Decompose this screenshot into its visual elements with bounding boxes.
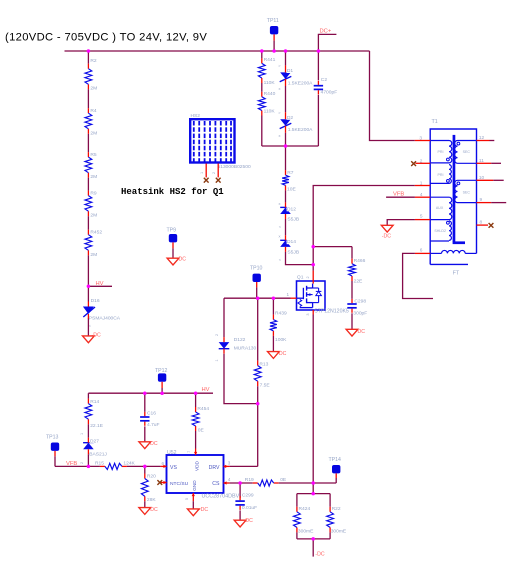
wire: -DC stub [312,539,314,557]
T1 pin 1 [415,181,430,187]
svg-text:4.7uF: 4.7uF [147,422,160,428]
svg-text:R13: R13 [259,361,268,367]
wire [87,134,89,152]
svg-text:-DC: -DC [148,441,157,447]
svg-text:VFB: VFB [393,191,404,197]
wire [261,116,263,147]
label R7 [287,170,294,176]
resistor R14 [85,399,92,425]
svg-text:28K: 28K [147,497,156,503]
svg-text:U52: U52 [167,450,177,456]
label D16 [91,298,100,304]
capacitor C298 [347,299,356,313]
pin mark [80,433,84,435]
junction (285.5,51) [284,49,288,53]
svg-text:3: 3 [306,313,310,315]
svg-text:11: 11 [479,158,484,164]
label R452 [90,229,102,235]
label 513000B02500 [218,164,251,170]
pin 2 label (drain) [306,276,310,278]
junction (195.6,393.2) [194,391,198,395]
junction (313.2,264.6) [311,263,315,267]
wire [144,501,146,507]
label 0E (R454) [198,427,205,433]
junction (88.4,286.3) [87,285,91,289]
net label -DC [92,333,101,339]
svg-text:UCC28704DBV: UCC28704DBV [202,494,240,500]
label 300mE (R424) [298,528,314,534]
svg-text:R15: R15 [95,460,104,466]
svg-text:DC+: DC+ [320,28,332,34]
svg-text:BAS21J: BAS21J [89,451,107,457]
capacitor C2 [314,81,323,95]
svg-text:R19: R19 [245,477,254,483]
heatsink HS2 body [190,119,234,163]
svg-text:C2: C2 [321,77,328,83]
label R2 [90,58,97,64]
svg-text:VDD: VDD [194,460,199,471]
wire: Q1 source column [312,315,314,494]
transformer T1 [430,129,476,264]
svg-text:SEC: SEC [463,190,471,194]
svg-text:2: 2 [212,172,216,174]
label 22.1E [90,423,104,429]
pin mark [215,334,219,336]
label AUX [436,206,444,210]
resistor R13 [254,361,261,387]
ground -DC (R20) [139,508,151,515]
svg-text:>: > [278,110,281,115]
svg-text:2M: 2M [90,174,97,180]
label TP11 [267,18,279,24]
wire [87,216,89,230]
label R9 [90,190,97,196]
label SHLD2 [434,229,446,233]
diode D122 [219,337,230,354]
net label HV [202,387,210,393]
svg-text:HV: HV [202,387,210,393]
svg-text:10E: 10E [287,186,296,192]
svg-text:2: 2 [306,276,310,278]
svg-text:2M: 2M [90,86,97,92]
wire [351,313,353,329]
ground -DC (D16) [83,336,95,343]
label C298 [354,298,366,304]
label 300pF [353,311,367,317]
T1 pin 3 [415,136,430,142]
svg-text:HS2: HS2 [191,113,201,119]
test point TP9 [169,234,177,258]
label R19 [245,477,254,483]
label D14 [287,239,297,245]
svg-text:3: 3 [419,136,422,142]
svg-text:Heatsink HS2 for Q1: Heatsink HS2 for Q1 [121,187,224,197]
svg-text:STP12N120K5: STP12N120K5 [314,308,349,314]
label 300mE (R22) [331,528,347,534]
label STP12N120K5 [314,308,349,314]
wire [351,281,353,299]
net label -DC [244,518,253,524]
label TP10 [250,266,263,272]
label R13 [259,361,268,367]
pin mark [215,359,219,361]
svg-text:TP9: TP9 [167,228,177,234]
label 110K (R441) [264,80,276,86]
wire [351,247,353,259]
label R441 [264,57,276,63]
wire: C299 column [239,483,241,498]
svg-text:0E: 0E [198,427,205,433]
label D122 [234,337,246,343]
wire: snubber bottom bar [262,145,319,147]
svg-text:1: 1 [80,433,84,435]
svg-text:DRV: DRV [209,465,220,471]
T1 pin 5 [415,213,430,219]
T1 pin 11 [477,158,502,164]
junction (261.8,51) [260,49,264,53]
svg-text:(120VDC - 705VDC ) TO 24V, 12: (120VDC - 705VDC ) TO 24V, 12V, 9V [5,32,207,44]
net label -DC [199,507,208,513]
svg-text:C299: C299 [242,493,254,499]
label D2 [287,115,294,121]
label R14 [90,399,99,405]
svg-text:R7: R7 [287,170,294,176]
junction (318.4,51) [317,49,321,53]
net label -DC [382,233,391,239]
svg-text:-DC: -DC [382,233,391,239]
diode D14 [280,235,291,252]
svg-text:4: 4 [420,192,423,198]
svg-text:TP12: TP12 [155,368,168,374]
label 110K (R440) [264,109,276,115]
wire [127,465,161,467]
svg-text:VS: VS [170,465,177,471]
transistor Q1 (MOSFET) [291,271,326,315]
net label VFB [393,191,404,197]
T1 pin 6 [415,247,430,253]
resistor R439 [270,315,277,336]
resistor R466 [349,259,356,281]
label PRI (lower) [438,173,444,177]
svg-text:GND: GND [192,480,197,491]
wire [317,95,319,146]
svg-text:6: 6 [420,247,423,253]
wire: D122 column [223,298,225,337]
junction (273.4,298.2) [272,296,276,300]
svg-text:AUX: AUX [436,206,444,210]
pin mark [279,257,282,262]
svg-text:PRI: PRI [438,150,444,154]
junction (313.2,538.9) [311,537,315,541]
U52 pin NTC/SU [161,481,189,487]
svg-text:<: < [279,224,282,229]
U52 pin 7 VDD [187,449,199,472]
svg-text:x: x [279,86,281,91]
label PRI (upper) [438,150,444,154]
svg-text:T1: T1 [432,119,438,125]
label R440 [264,91,276,97]
diode D1 [280,65,292,86]
svg-text:7: 7 [187,451,191,453]
label 1.5KE200A (D1) [288,80,313,86]
label 4.7uF [147,422,160,428]
resistor R454 [192,407,199,431]
wire [87,89,89,108]
label 28K [147,497,156,503]
wire [87,424,89,438]
resistor R2 [85,64,92,90]
svg-text:5: 5 [420,213,423,219]
heatsink pin 2 [212,164,218,178]
label R5 [90,152,97,158]
wire: shunt top bar [297,493,330,495]
svg-text:2: 2 [80,462,84,464]
label BAS21J [89,451,107,457]
svg-text:22E: 22E [354,278,363,284]
svg-text:110K: 110K [264,109,276,115]
U52 pin 5 GND [185,480,197,501]
resistor R19 [253,480,279,486]
svg-text:x: x [279,234,281,239]
wire [296,494,298,507]
pin mark [279,133,281,138]
wire [257,386,259,466]
svg-text:12: 12 [479,135,485,141]
wire: R13 column top [257,298,259,360]
pin 1 label (gate) [286,292,289,297]
svg-text:-DC: -DC [315,551,324,557]
wire: T1 pin1 to drain column [313,186,415,271]
label R466 [354,258,366,264]
label R454 [197,406,209,412]
svg-text:CS: CS [212,481,220,487]
svg-text:D12: D12 [287,206,296,212]
svg-text:4: 4 [228,477,231,482]
svg-text:R14: R14 [90,399,99,405]
test point TP14 [313,465,340,483]
net label -DC [277,351,286,357]
label T1 [432,119,438,125]
label U52 [167,450,177,456]
note Heatsink HS2 for Q1 [121,187,224,197]
svg-text:2M: 2M [90,252,97,258]
svg-text:C298: C298 [354,298,366,304]
pin 3 label (source) [306,313,310,315]
wire [329,494,331,507]
svg-text:R20: R20 [147,473,156,479]
wire [272,336,274,352]
svg-text:1: 1 [200,172,204,174]
ground -DC (R439) [268,352,280,359]
label 0.01uF [242,505,257,511]
svg-text:x: x [279,201,281,206]
wire: HV stub [88,285,112,287]
pin mark [278,63,281,68]
wire: chain top segment [87,51,89,64]
wire: to drain node [286,252,314,265]
wire [296,532,298,539]
svg-text:D14: D14 [287,239,296,245]
svg-text:>: > [278,63,281,68]
svg-text:5: 5 [185,498,189,500]
wire: branch to R466 [313,246,352,248]
label 124K [123,460,135,466]
svg-text:R441: R441 [264,57,276,63]
label TP12 [155,368,168,374]
svg-text:R22: R22 [332,506,341,512]
wire [87,319,89,336]
wire [285,190,287,202]
wire: pin5 to ground [387,220,415,226]
svg-text:7.5E: 7.5E [260,383,271,389]
wire [329,532,331,539]
label TP14 [329,457,342,463]
svg-text:-DC: -DC [199,507,208,513]
wire: D1 column top [285,51,287,65]
wire: +DC top rail [65,50,370,52]
wire [285,133,287,146]
label TP13 [46,435,59,441]
junction (313.2,493.6) [311,492,315,496]
label C299 [242,493,254,499]
wire [87,255,89,286]
svg-text:100K: 100K [275,337,287,343]
wire [144,426,146,441]
svg-text:<: < [279,257,282,262]
label Q1 [297,275,304,281]
no-connect X (HS2 pin2) [216,178,221,183]
label R20 [147,473,156,479]
resistor R22 [327,507,334,533]
net label HV [96,281,104,287]
ground -DC (C298) [346,329,358,336]
wire [87,454,89,466]
wire: gate wire [224,297,291,299]
pin mark [279,234,281,239]
svg-text:2: 2 [215,334,219,336]
diode D12 [280,202,291,219]
wire: C2 column top [317,51,319,80]
T1 pin 12 [477,135,495,141]
label TP9 [167,228,177,234]
resistor R441 [258,58,265,83]
svg-text:300mE: 300mE [331,528,347,534]
T1 pin 9 [477,197,507,203]
junction (313.2,246.6) [311,245,315,249]
resistor R7 [282,170,289,190]
title text [5,32,207,44]
U52 pin 6 VS [161,461,178,471]
junction (88.4,51) [87,49,91,53]
label SMAJ400CA [89,316,121,322]
label FT [453,271,460,277]
label S5JB (D14) [287,250,299,256]
label HS2 [191,113,201,119]
svg-text:TP11: TP11 [267,18,279,24]
svg-text:D122: D122 [234,337,246,343]
test point TP12 [158,373,166,393]
no-connect X (HS2 pin1) [204,178,209,183]
T1 pin 4 [415,192,430,198]
label R439 [275,310,287,316]
svg-text:C16: C16 [147,410,156,416]
wire: R14 column [87,393,89,398]
net label -DC [356,329,365,335]
svg-text:4700pF: 4700pF [321,89,338,95]
junction (144.8,466.4) [143,465,147,469]
label D12 [287,206,297,212]
wire [192,501,194,509]
label MURA130 [234,346,257,352]
resistor R452 [85,230,92,256]
svg-text:R424: R424 [299,506,311,512]
svg-text:1.5KE200A: 1.5KE200A [288,127,313,133]
svg-text:-DC: -DC [92,333,101,339]
svg-text:2M: 2M [90,130,97,136]
svg-text:8: 8 [480,220,483,226]
pin mark [279,86,281,91]
capacitor C299 [235,496,244,510]
wire [285,146,287,170]
resistor R440 [258,92,265,116]
label S5JB (D12) [287,217,299,223]
pin mark [278,110,281,115]
wire [230,482,253,484]
svg-text:x: x [279,133,281,138]
ground -DC (T1 pin5) [381,225,393,232]
label D27 [90,438,100,444]
wire [279,482,314,484]
wire: VFB run [55,465,100,467]
wire: VFB stub [386,196,415,198]
svg-text:R454: R454 [197,406,209,412]
svg-text:3: 3 [228,460,231,465]
wire [87,178,89,191]
pin mark [279,201,281,206]
svg-text:300pF: 300pF [353,311,367,317]
no-connect X (T1 pin8) [489,223,494,228]
heatsink pin 1 [200,164,206,178]
wire [261,83,263,92]
junction (257.7,298.2) [256,296,260,300]
ground -DC (C299) [234,520,246,527]
svg-text:9: 9 [480,197,483,203]
junction (274.1,51) [272,49,276,53]
junction (144.8,393.2) [143,391,147,395]
wire [285,86,287,112]
svg-text:R452: R452 [90,229,102,235]
wire [195,431,197,449]
wire: rail drop to T1 pin 3 [370,51,415,141]
net label -DC [148,441,157,447]
svg-text:R2: R2 [90,58,97,64]
wire [87,286,89,301]
ground -DC (U52) [187,509,199,516]
label 2M (R9) [90,213,97,219]
label SEC (upper) [463,150,471,154]
test point TP10 [253,274,261,299]
svg-text:SEC: SEC [463,150,471,154]
svg-text:S5JB: S5JB [287,217,299,223]
svg-text:2: 2 [420,159,423,165]
svg-text:R466: R466 [354,258,366,264]
svg-text:FT: FT [453,271,460,277]
capacitor C16 [140,412,149,426]
wire: shunt bottom bar [297,538,330,540]
svg-text:MURA130: MURA130 [234,346,257,352]
resistor R424 [294,507,301,533]
label 10E (R7) [287,186,296,192]
